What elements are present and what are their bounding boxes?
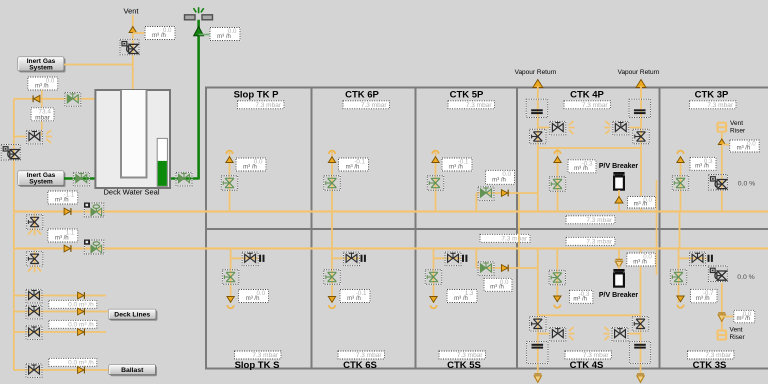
pressure indicator CTK 5S 7.3 mbar (439, 351, 486, 359)
wire CTK 5S vent branch (433, 249, 435, 304)
level gauge deck water seal (157, 138, 167, 186)
P/V vent head Slop TK P (226, 151, 233, 163)
svg-text:P/V Breaker: P/V Breaker (599, 163, 639, 170)
valve CTK5S crossover (green) (478, 262, 494, 276)
svg-text:m³ /h: m³ /h (35, 83, 49, 89)
svg-text:0.0 %: 0.0 % (737, 274, 754, 281)
svg-text:m³ /h: m³ /h (633, 259, 647, 265)
valve Slop TK S vent stub (242, 252, 258, 266)
flow arrow down vapour outlet left (534, 374, 541, 382)
flow arrow left IG header (33, 95, 40, 102)
svg-text:CTK 3S: CTK 3S (693, 360, 727, 371)
valve CTK5P crossover (green) (478, 187, 494, 201)
flow arrow down vapour outlet right (637, 374, 644, 382)
svg-text:mbar: mbar (35, 115, 51, 122)
wire stub vent flow box (133, 32, 145, 34)
wire stub CTK3P riser box (722, 144, 730, 146)
svg-text:Slop TK S: Slop TK S (235, 360, 280, 371)
flow indicator FI vent 0.0 m3/h (145, 27, 175, 40)
flow indicator FI CTK4P breaker 0.0 m3/h (628, 197, 656, 209)
svg-text:0.0 %: 0.0 % (738, 181, 755, 188)
valve Slop TK P vent isolating (green) (221, 176, 238, 191)
wire CTK3S blank stub (679, 257, 707, 259)
button Inert Gas System (top) (18, 57, 66, 73)
flow arrow up vapour return left (533, 80, 543, 88)
wire vapour return drop left (537, 249, 539, 369)
wire deck line row 2 (14, 311, 109, 313)
vent rays CTK4S right (604, 327, 610, 340)
valve CTK4P vent right (613, 121, 629, 135)
valve seal outlet (green) (176, 172, 192, 186)
svg-text:m³ /h: m³ /h (217, 34, 231, 40)
flow arrow up on vent line (129, 27, 137, 33)
wire deck line row 3 (14, 331, 106, 333)
valve CTK 5S vent isolating (green) (425, 270, 442, 285)
valve deck line 3 (26, 326, 42, 340)
pressure indicator upper main 7.3 mbar (566, 216, 615, 224)
svg-text:7.3 mbar: 7.3 mbar (707, 102, 733, 109)
svg-text:7.3 mbar: 7.3 mbar (255, 102, 281, 109)
wire CTK3 mid riser (679, 212, 681, 249)
vent rays CTK4P left (569, 121, 575, 134)
svg-text:0.0 m³ /h: 0.0 m³ /h (68, 360, 94, 367)
svg-text:7.3 mbar: 7.3 mbar (586, 217, 612, 224)
flow arrow deck line 3 (78, 329, 85, 336)
deck water seal vessel (95, 90, 170, 188)
pressure indicator CTK 3P 7.3 mbar (690, 101, 737, 109)
wire riser between manifolds (34, 212, 36, 231)
wire CTK4P edge riser (656, 180, 658, 275)
valve CTK3S vent isolating (green) (670, 270, 687, 285)
wire stub to PV vent valve (14, 136, 27, 138)
pressure indicator PI 73.4 mbar (31, 108, 54, 122)
wire CTK 6S vent branch (331, 249, 333, 304)
flow indicator FI CTK 6P -0.1 m3/h (339, 158, 369, 171)
wire vent line down from Vent (132, 15, 134, 92)
wire CTK6 mid riser (331, 212, 333, 249)
spectacle blind Slop TK S (260, 255, 263, 262)
wire IG supply to vent line (64, 64, 133, 66)
svg-text:Vent: Vent (730, 327, 743, 334)
flow arrow CTK5S crossover (501, 265, 508, 272)
svg-text:Deck Lines: Deck Lines (114, 312, 150, 319)
svg-text:m³ /h: m³ /h (152, 33, 166, 39)
wire CTK4S cross header (538, 314, 641, 316)
svg-text:7.3 mbar: 7.3 mbar (583, 352, 609, 359)
svg-text:m³ /h: m³ /h (492, 178, 506, 184)
spectacle blind CTK 6S (362, 255, 365, 262)
wire left trunk (13, 99, 15, 370)
flow indicator FI IG 0.0 m3/h (28, 77, 58, 90)
pressure indicator Slop TK P 7.3 mbar (238, 101, 285, 109)
wire vapour return outlet right (640, 369, 642, 375)
P/V vent head CTK 3P (677, 151, 684, 163)
wire CTK4S breaker feed (618, 249, 620, 261)
wire CTK3P riser line (721, 133, 723, 212)
flow arrow up vent mast (194, 27, 204, 36)
wire CTK4P cross header (538, 147, 641, 149)
wire stub mast flow box (green) (199, 34, 210, 36)
svg-text:0.0 m³ /h: 0.0 m³ /h (68, 302, 94, 309)
wire CTK4P breaker drop (618, 190, 620, 212)
svg-text:Vapour Return: Vapour Return (515, 69, 557, 76)
spectacle blind CTK3S (709, 255, 712, 262)
flame arrester CTK4P right (629, 99, 651, 117)
svg-text:m³ /h: m³ /h (243, 164, 257, 170)
wire CTK 6S blank stub (332, 257, 360, 259)
pressure indicator CTK 5P 7.3 mbar (448, 101, 495, 109)
P/V vent head CTK 6S (328, 297, 335, 309)
flow indicator FI Slop TK P 0.0 m3/h (236, 158, 266, 171)
wire CTK 6P vent branch (331, 152, 333, 212)
svg-text:m³ /h: m³ /h (573, 297, 587, 303)
svg-text:System: System (29, 65, 53, 72)
P/V vent head Slop TK S (227, 297, 234, 309)
valve CTK4S riser left (530, 317, 547, 332)
svg-text:CTK 5S: CTK 5S (447, 360, 481, 371)
P/V vent head CTK 4P (554, 151, 561, 163)
flow indicator FI mast 0.0 m3/h (210, 28, 240, 41)
flow arrow right lower manifold (64, 245, 71, 252)
svg-text:7.3 mbar: 7.3 mbar (705, 352, 731, 359)
svg-text:m³ /h: m³ /h (55, 197, 69, 203)
pressure indicator lower main 7.3 mbar (left) (480, 234, 530, 242)
wire vapour return drop right (640, 249, 642, 369)
pressure indicator CTK 4P 7.3 mbar (564, 101, 611, 109)
valve IG header (green) (65, 93, 81, 107)
flame arrester CTK4S left (527, 342, 548, 364)
wire lower manifold branch down (34, 249, 36, 268)
svg-text:Ballast: Ballast (121, 367, 144, 374)
svg-text:m³ /h: m³ /h (454, 296, 468, 302)
flow indicator FI CTK 6S -0.1 m3/h (340, 290, 370, 303)
svg-text:CTK 4P: CTK 4P (570, 90, 604, 101)
svg-text:7.3 mbar: 7.3 mbar (252, 352, 278, 359)
wire CTK4S PV branch (556, 249, 558, 297)
valve CTK4P vent isolating (green) (549, 177, 566, 192)
flow indicator FI CTK 5S 1.3 m3/h (447, 290, 477, 303)
vent riser symbol CTK3P (718, 123, 727, 132)
pressure indicator CTK 6S 7.3 mbar (338, 351, 385, 359)
valve CTK4P riser right (633, 129, 650, 144)
P/V vent head CTK 5S (430, 297, 437, 309)
wire CTK4S breaker stub (618, 266, 620, 269)
wire vapour return riser right (640, 86, 642, 212)
svg-text:m³ /h: m³ /h (634, 201, 648, 207)
wire IG to seal (green) (64, 177, 95, 179)
svg-text:CTK 6S: CTK 6S (343, 360, 377, 371)
P/V vent head CTK 5P (432, 151, 439, 163)
flow arrow right upper manifold (64, 208, 71, 215)
flow arrow deck line 1 (78, 292, 85, 299)
valve CTK4S riser right (632, 317, 649, 332)
wire vapour return outlet left (537, 369, 539, 375)
svg-text:m³ /h: m³ /h (246, 296, 260, 302)
valve CTK4P vent left (550, 121, 566, 135)
wire Slop TK S vent branch (230, 249, 232, 304)
valve CTK 6S vent isolating (green) (324, 270, 341, 285)
svg-text:m³ /h: m³ /h (55, 235, 69, 241)
pressure indicator CTK 4S 7.3 mbar (565, 351, 612, 359)
vent rays breather (46, 130, 52, 143)
wire vent mast riser (green) (197, 20, 200, 180)
wire stub CTK4P vent left (538, 127, 550, 129)
valve CTK4P riser left (530, 129, 547, 144)
flow indicator FI CTK4P -0.3 m3/h (568, 160, 596, 173)
valve upper manifold relief (26, 215, 42, 230)
wire Slop TK P vent branch (229, 152, 231, 212)
flow indicator FI lower manifold 1.1 m3/h (48, 229, 78, 242)
wire stub CTK4P vent right (629, 127, 641, 129)
vent rays lower relief (28, 267, 41, 273)
svg-text:Deck Water Seal: Deck Water Seal (104, 188, 160, 197)
flow indicator FI CTK3S -0.7 m3/h (691, 289, 718, 303)
button Deck Lines (109, 309, 158, 321)
wire Slop TK S blank stub (231, 257, 259, 259)
P/V breaker CTK4S (613, 269, 624, 287)
valve deck line 1 (26, 289, 42, 303)
flow arrow up CTK3P riser (718, 139, 725, 145)
button Inert Gas System (bottom) (18, 171, 66, 187)
flow indicator row 0.0 m3/h (2) (49, 320, 97, 328)
valve vent breather (26, 130, 42, 144)
valve CTK 6S vent stub (344, 252, 360, 266)
spectacle blind CTK 5S (463, 255, 466, 262)
wire stub CTK4S vent left (538, 333, 550, 335)
wire vapour return riser left (537, 86, 539, 212)
flow indicator FI CTK4S -0.3 m3/h (569, 290, 593, 303)
flow arrow ballast line (78, 367, 85, 374)
wire CTK5S crossover riser (475, 249, 477, 269)
flow indicator FI CTK4S breaker 0.0 m3/h (627, 253, 656, 266)
flow arrow up vapour return right (636, 80, 646, 88)
flow indicator row 0.0 m3/h (3) (49, 358, 97, 366)
svg-text:Riser: Riser (730, 128, 746, 135)
valve CTK3P vent isolating (green) (672, 176, 689, 191)
valve ballast line (26, 364, 42, 378)
valve CTK3P riser isolating (motorized) (709, 175, 728, 191)
svg-text:Riser: Riser (730, 334, 746, 341)
svg-text:m³ /h: m³ /h (736, 316, 750, 322)
svg-text:CTK 6P: CTK 6P (345, 90, 379, 101)
flow arrow deck line 2 (78, 308, 85, 315)
flow indicator row 0.0 m3/h (1) (49, 300, 97, 308)
svg-text:m³ /h: m³ /h (574, 166, 588, 172)
pressure indicator Slop TK S 7.3 mbar (235, 351, 282, 359)
valve CTK4S vent left (550, 327, 566, 341)
vent rays CTK4P right (604, 121, 610, 134)
wire CTK3S vent branch (678, 249, 680, 304)
valve CTK 6P vent isolating (green) (324, 176, 341, 191)
flow indicator FI CTK3P riser 0.0 m3/h (730, 140, 760, 152)
wire FI drop (41, 90, 43, 136)
valve Slop TK S vent isolating (green) (222, 270, 239, 285)
P/V vent head CTK 4S (554, 296, 561, 308)
svg-text:Slop TK P: Slop TK P (234, 90, 280, 101)
flow arrow down CTK4S breaker (615, 260, 622, 268)
flame arrester CTK4P left (526, 99, 548, 117)
svg-text:m³ /h: m³ /h (696, 296, 710, 302)
svg-text:m³ /h: m³ /h (346, 164, 360, 170)
wire border riser P/S (CTK4 left) (518, 193, 520, 268)
vent rays CTK4S left (569, 327, 575, 340)
P/V vent head CTK 3S (677, 296, 684, 308)
wire CTK3S riser line (721, 283, 723, 330)
wire ballast row (14, 369, 109, 371)
P/V vent head CTK 6P (328, 151, 335, 163)
svg-text:7.3 mbar: 7.3 mbar (466, 102, 492, 109)
flow indicator FI CTK 5P -0.1 m3/h (442, 158, 472, 171)
vent mast head plates (185, 15, 213, 20)
flow indicator FI CTK5P crossover 0.0 m3/h (486, 170, 515, 184)
pressure indicator CTK 3S 7.3 mbar (688, 351, 735, 359)
valve CTK4S vent right (612, 327, 628, 341)
vent riser symbol CTK3S (718, 331, 727, 340)
svg-text:7.3 mbar: 7.3 mbar (356, 352, 382, 359)
valve CTK 5S vent stub (445, 252, 461, 266)
svg-text:m³ /h: m³ /h (449, 164, 463, 170)
svg-text:7.3 mbar: 7.3 mbar (361, 102, 387, 109)
svg-text:7.3 mbar: 7.3 mbar (582, 102, 608, 109)
wire CTK5P crossover riser (475, 193, 477, 212)
svg-text:0.0 m³ /h: 0.0 m³ /h (68, 322, 94, 329)
valve lower manifold master (motorized, green) (84, 240, 104, 255)
wire CTK 5P vent branch (435, 152, 437, 212)
button Ballast (109, 365, 157, 377)
svg-text:m³ /h: m³ /h (347, 296, 361, 302)
wire vent manifold S (lower main) (14, 247, 768, 249)
wire vent manifold P (upper main) (14, 210, 768, 212)
svg-text:Vapour Return: Vapour Return (618, 69, 660, 76)
wire stub CTK3S riser box (722, 316, 734, 318)
wire CTK3P vent branch (680, 156, 682, 212)
valve CTK 5P vent isolating (green) (427, 176, 444, 191)
flow indicator FI upper manifold -1.1 m3/h (48, 191, 78, 204)
svg-text:7.3 mbar: 7.3 mbar (586, 239, 612, 246)
valve CTK4S vent isolating (green) (549, 270, 566, 285)
valve seal inlet (green) (73, 172, 89, 186)
valve upper manifold master (motorized, green) (84, 203, 104, 218)
svg-text:P/V Breaker: P/V Breaker (599, 292, 639, 299)
svg-text:CTK 3P: CTK 3P (695, 90, 729, 101)
flow indicator FI CTK5S crossover 0.0 m3/h (484, 278, 512, 291)
pressure indicator CTK 6P 7.3 mbar (343, 101, 390, 109)
valve CTK3S riser isolating (motorized) (708, 266, 727, 282)
svg-text:Vent: Vent (123, 7, 139, 16)
flow arrow up CTK4P breaker (615, 197, 623, 204)
wire deck line row 1 (14, 295, 106, 297)
svg-text:CTK 4S: CTK 4S (570, 360, 604, 371)
valve vent isolating (motorized) (120, 39, 139, 55)
svg-text:7.3 mbar: 7.3 mbar (501, 236, 527, 243)
wire CTK4P PV branch (557, 148, 559, 212)
wire seal to mast (green) (170, 177, 199, 179)
wire CTK5P crossover (476, 192, 538, 194)
valve CTK3S vent stub (690, 252, 706, 266)
svg-text:7.3 mbar: 7.3 mbar (457, 352, 483, 359)
flow indicator FI Slop TK S 0.0 m3/h (239, 290, 269, 303)
flow arrow CTK5P crossover (501, 190, 508, 197)
wire CTK 5S blank stub (434, 257, 462, 259)
flow indicator FI CTK3S riser 0.0 m3/h (734, 310, 755, 323)
vent mast discharge dashes (194, 7, 204, 13)
wire stub CTK4S vent right (629, 333, 641, 335)
flow arrow down CTK3S riser (718, 313, 725, 321)
svg-text:Vent: Vent (730, 120, 743, 127)
svg-text:m³ /h: m³ /h (695, 164, 709, 170)
vent rays upper relief (28, 230, 41, 236)
P/V breaker CTK4P (613, 172, 624, 190)
wire IG header horizontal (14, 98, 96, 100)
valve lower manifold relief (26, 252, 42, 266)
svg-text:m³ /h: m³ /h (737, 145, 751, 151)
svg-text:System: System (29, 179, 53, 186)
tank table frame (205, 87, 768, 369)
flow indicator FI CTK3P 0.3 m3/h (690, 157, 716, 170)
svg-text:m³ /h: m³ /h (490, 285, 504, 291)
valve deck line 2 (26, 305, 42, 319)
pressure indicator lower main 7.3 mbar (right) (566, 237, 615, 245)
wire CTK5S crossover (476, 267, 538, 269)
valve IG deck isolating (motorized) (1, 145, 20, 161)
svg-text:CTK 5P: CTK 5P (450, 90, 484, 101)
flame arrester CTK4S right (629, 342, 650, 364)
